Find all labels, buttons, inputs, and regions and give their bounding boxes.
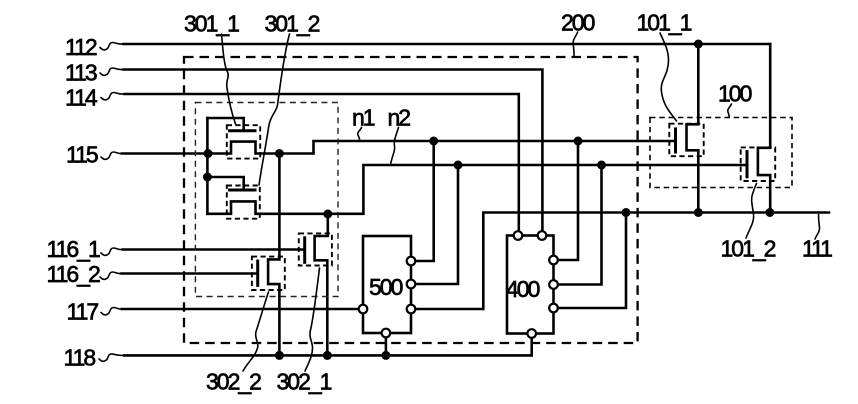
svg-text:101_2: 101_2: [721, 236, 776, 262]
dashed box 300 group: [195, 103, 338, 297]
junction wire 115 / 302_2 drain column: [275, 149, 284, 158]
transistor 302_1 gate: [303, 238, 306, 262]
wire 115 / node n1: [122, 141, 674, 154]
block 400: [507, 236, 554, 334]
wire 400 out bottom to rail: [554, 213, 627, 309]
terminal 500 right middle: [407, 280, 416, 289]
dashed box transistor 301_2: [227, 186, 260, 219]
terminal 500 right bottom: [407, 305, 416, 314]
terminal 400 bottom (to wire 118): [527, 329, 536, 338]
dashed box transistor 302_2: [252, 257, 285, 290]
svg-text:101_1: 101_1: [637, 10, 692, 36]
dashed box transistor 302_1: [299, 233, 332, 265]
wire 114: [125, 94, 519, 233]
block 500: [363, 236, 411, 333]
terminal 400 top left (wire 114 in): [514, 231, 523, 240]
transistor 101_1 gate: [674, 129, 677, 152]
junction node n1 / 500 output a: [429, 137, 438, 146]
svg-text:302_1: 302_1: [277, 369, 332, 395]
wire 301_2 drain rail / node n2: [207, 165, 745, 214]
terminal 500 left (wire 117 in): [359, 305, 368, 314]
svg-text:301_1: 301_1: [184, 11, 239, 37]
dashed box 200: [184, 57, 638, 343]
wire 400 out top to n1: [554, 141, 579, 260]
svg-text:111: 111: [802, 236, 832, 262]
junction wire 118 / 302_2 source: [275, 351, 284, 360]
svg-text:114: 114: [65, 85, 98, 111]
wire 500 out top to n1: [411, 141, 434, 261]
wire 118: [124, 338, 531, 355]
svg-text:500: 500: [369, 274, 403, 300]
junction rail 111 / 101_2 source: [765, 208, 774, 217]
terminal 500 bottom (to wire 118): [382, 329, 391, 338]
dashed box transistor 101_2: [741, 147, 776, 181]
transistor 101_2 gate: [746, 152, 749, 177]
junction node n2 / 400 output b: [597, 161, 606, 170]
junction rail 111 / 101_1 source: [694, 208, 703, 217]
svg-text:301_2: 301_2: [265, 11, 320, 37]
terminal 400 right top: [549, 256, 558, 265]
svg-text:116_1: 116_1: [47, 236, 100, 262]
wire 113: [124, 70, 543, 234]
junction node n2 / 500 output b: [454, 161, 463, 170]
svg-text:117: 117: [67, 299, 99, 325]
wire 112: [124, 43, 771, 46]
svg-text:400: 400: [506, 276, 540, 302]
wire 302_2 source column: [268, 154, 279, 356]
svg-text:113: 113: [65, 60, 97, 86]
dashed box transistor 101_1: [669, 124, 703, 157]
wire 500 out mid to n2: [411, 165, 458, 284]
transistor 302_2 gate: [256, 261, 259, 285]
svg-text:n1: n1: [352, 105, 375, 131]
wire 400 out mid to n2: [554, 165, 602, 285]
terminal 500 right top: [407, 257, 416, 266]
transistor 301_2 gate: [207, 177, 243, 188]
wire 116_2: [122, 272, 256, 275]
svg-text:116_2: 116_2: [47, 261, 100, 287]
wire 500 out bottom to rail 111: [411, 213, 829, 310]
transistor 101_2 channel: [758, 44, 770, 213]
svg-text:118: 118: [64, 345, 96, 371]
junction wire 118 / 302_1 source: [323, 351, 332, 360]
wire 117: [122, 308, 360, 311]
junction wire 118 / 500 bottom terminal: [381, 351, 390, 360]
svg-text:115: 115: [66, 142, 98, 168]
dashed box transistor 301_1: [227, 125, 260, 158]
junction 301_2 drain rail / 302_1 column: [323, 210, 332, 219]
wire 302_1 source column: [315, 214, 328, 355]
junction node n1 / 400 output a: [574, 137, 583, 146]
wire 116_1: [123, 248, 303, 251]
dashed box 100: [650, 118, 792, 188]
terminal 400 top right (wire 113 in): [538, 231, 547, 240]
transistor 101_1 channel / wire 112 branch: [687, 44, 699, 213]
svg-text:100: 100: [718, 81, 752, 107]
junction on wire 112 at 101_1 drain: [694, 40, 703, 49]
junction rail 111 / 400 output c: [622, 208, 631, 217]
junction wire 115 / 301_1 source: [204, 149, 213, 158]
svg-text:302_2: 302_2: [206, 369, 261, 395]
svg-text:112: 112: [65, 34, 97, 60]
svg-text:n2: n2: [388, 105, 411, 131]
wire 500 bottom to 118: [385, 333, 388, 355]
transistor 301_1 gate: [207, 118, 243, 129]
wire left column: [206, 118, 209, 214]
junction left column / 301_2 gate: [203, 173, 212, 182]
terminal 400 right middle: [549, 280, 558, 289]
terminal 400 right bottom: [549, 304, 558, 313]
